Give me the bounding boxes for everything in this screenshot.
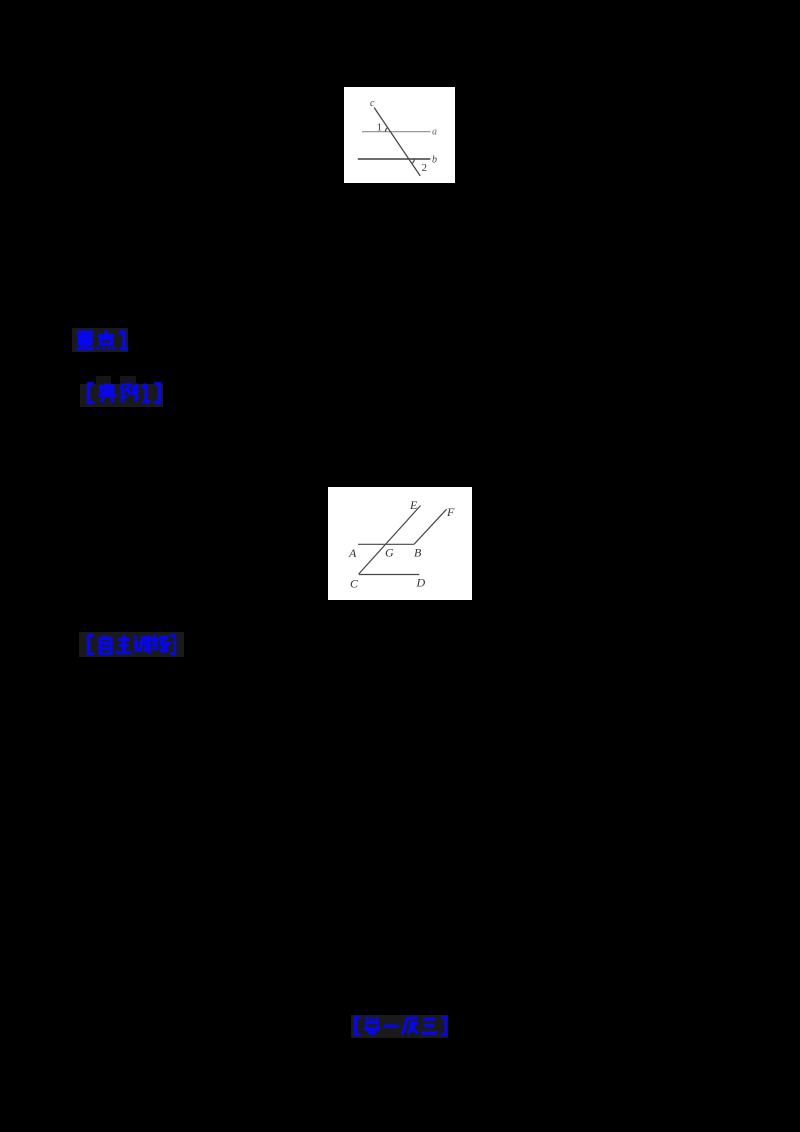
blue heading text: 【举一反三】 xyxy=(353,1016,447,1036)
char dian2 xyxy=(99,384,117,403)
char san xyxy=(421,1019,437,1033)
blue heading text: 【自主训练】 xyxy=(86,634,176,655)
wire line a xyxy=(362,131,431,133)
svg-text:a: a xyxy=(432,127,437,138)
svg-text:D: D xyxy=(416,576,426,590)
wire segment CD xyxy=(359,574,420,576)
heading highlight block 3 xyxy=(79,632,184,657)
svg-text:A: A xyxy=(348,546,357,560)
svg-text:2: 2 xyxy=(422,162,428,174)
heading highlight block 1 xyxy=(72,328,128,352)
left bracket xyxy=(356,1017,361,1035)
svg-text:B: B xyxy=(414,546,422,560)
wire segment AB xyxy=(358,543,414,545)
blue heading text: 【典例1】 xyxy=(86,382,162,404)
digit 1 xyxy=(119,331,128,349)
wire line b xyxy=(358,158,431,160)
digit 1 xyxy=(142,384,150,402)
wire transversal c xyxy=(374,108,420,176)
left bracket xyxy=(89,635,95,654)
svg-text:c: c xyxy=(370,98,375,109)
char dian xyxy=(98,330,115,350)
char zhong xyxy=(77,331,94,350)
right bracket xyxy=(441,1017,446,1035)
heading highlight block 4 xyxy=(351,1015,448,1038)
char zhu xyxy=(116,635,132,653)
right bracket xyxy=(154,384,160,403)
char lian xyxy=(153,635,169,654)
right bracket xyxy=(170,635,176,654)
angle arc 2 xyxy=(412,159,414,164)
figure box 1: parallel lines a,b cut by transversal c xyxy=(344,87,455,183)
svg-text:b: b xyxy=(432,155,437,166)
char zi xyxy=(100,635,111,654)
svg-text:C: C xyxy=(350,577,359,591)
char yi xyxy=(384,1024,399,1027)
wire line CE xyxy=(359,506,421,574)
heading highlight block 2 with tabs xyxy=(96,376,111,384)
char xun xyxy=(134,635,150,654)
svg-text:E: E xyxy=(409,498,418,512)
angle arc 1 xyxy=(385,128,387,132)
wire line BF xyxy=(414,509,447,544)
char li xyxy=(121,384,137,403)
left bracket xyxy=(89,384,95,403)
blue heading text: 重点1 xyxy=(74,329,128,351)
svg-text:1: 1 xyxy=(377,122,383,134)
svg-text:F: F xyxy=(446,505,455,519)
svg-text:G: G xyxy=(385,546,394,560)
figure box 2: segments AB, CD with lines CE and BF xyxy=(328,487,472,600)
char fan xyxy=(402,1018,418,1035)
char ju xyxy=(364,1017,380,1036)
